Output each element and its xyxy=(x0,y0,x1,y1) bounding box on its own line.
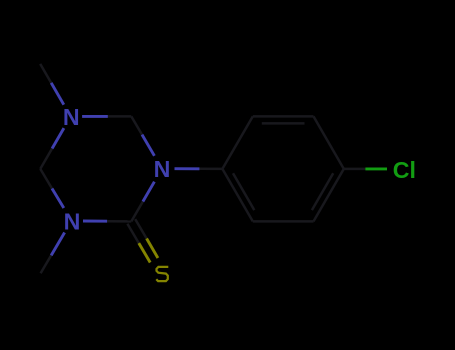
svg-text:N: N xyxy=(154,156,171,182)
svg-text:Cl: Cl xyxy=(393,157,416,183)
svg-text:N: N xyxy=(64,208,81,234)
svg-text:N: N xyxy=(63,104,80,130)
